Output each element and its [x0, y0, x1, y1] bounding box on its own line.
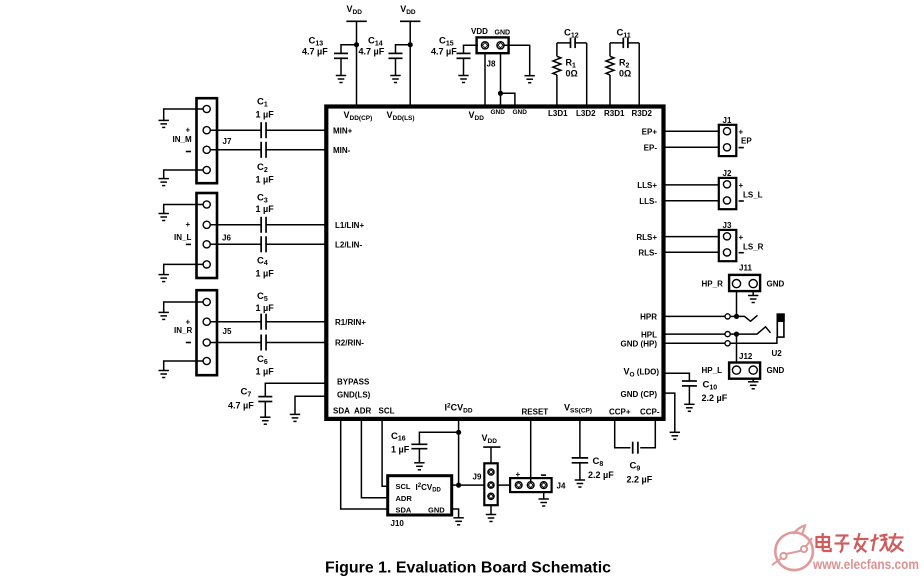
svg-text:4.7 µF: 4.7 µF — [228, 401, 254, 411]
contact GND(HP) — [725, 341, 730, 346]
svg-text:1 µF: 1 µF — [256, 303, 275, 313]
svg-text:CCP-: CCP- — [640, 408, 660, 417]
svg-text:4.7 µF: 4.7 µF — [431, 47, 457, 57]
svg-text:GND: GND — [428, 506, 445, 515]
junction GND branch — [498, 91, 503, 96]
wire J7 pin2 to C1 — [210, 129, 261, 131]
wire C1 to MIN+ — [266, 129, 326, 131]
wire HPL contact to junction — [730, 333, 734, 335]
wire C16 to ground — [418, 449, 420, 463]
svg-text:Figure 1. Evaluation Board Sch: Figure 1. Evaluation Board Schematic — [325, 560, 611, 577]
svg-text:J6: J6 — [222, 234, 231, 243]
svg-text:R3D1: R3D1 — [604, 109, 625, 118]
wire GND(HP) — [664, 342, 725, 344]
wire J9 to J4 — [498, 484, 510, 486]
power symbol VDD (left) — [346, 4, 366, 21]
svg-text:HPR: HPR — [640, 313, 657, 322]
wire to R2 — [609, 43, 611, 56]
svg-text:LLS+: LLS+ — [637, 181, 657, 190]
wire node to J9 — [459, 484, 485, 486]
svg-text:J12: J12 — [739, 352, 753, 361]
svg-text:GND: GND — [513, 109, 528, 116]
svg-text:1 µF: 1 µF — [391, 445, 410, 455]
svg-text:1 µF: 1 µF — [256, 367, 275, 377]
junction C14 tap — [408, 42, 413, 47]
svg-text:SCL: SCL — [396, 482, 411, 491]
junction C16 tap — [456, 430, 461, 435]
IC U-main body — [326, 107, 663, 419]
wire J8 pin2 to ground — [504, 45, 530, 75]
svg-text:1 µF: 1 µF — [256, 269, 275, 279]
wire GND(LS) to ground — [295, 396, 326, 414]
ground J10 — [453, 518, 463, 525]
wire HPR contact to junction — [730, 315, 734, 317]
switch contact HPR (jack normally-closed) — [739, 315, 758, 321]
wire to C14 — [396, 45, 411, 54]
svg-text:J9: J9 — [473, 473, 482, 482]
minus IN_M — [186, 151, 191, 153]
contact HPR — [725, 314, 730, 319]
wire to R1 — [556, 43, 558, 56]
svg-text:J5: J5 — [223, 327, 232, 336]
svg-text:+: + — [186, 126, 191, 135]
power symbol VDD (J9) — [482, 433, 501, 447]
svg-text:R3D2: R3D2 — [632, 109, 653, 118]
wire C8 to ground — [579, 463, 581, 480]
svg-text:2.2 µF: 2.2 µF — [588, 470, 614, 480]
minus IN_R — [186, 342, 191, 344]
svg-text:RESET: RESET — [522, 408, 549, 417]
wire ADR to J10 — [361, 419, 387, 498]
minus LS_L — [739, 200, 744, 202]
wire C11 left — [610, 42, 623, 44]
svg-text:GND (CP): GND (CP) — [621, 390, 658, 399]
svg-text:1 µF: 1 µF — [256, 204, 275, 214]
wire J12 pin2 to ground — [752, 379, 754, 382]
svg-text:GND: GND — [767, 280, 785, 289]
minus IN_L — [186, 244, 191, 246]
svg-text:L3D2: L3D2 — [576, 109, 596, 118]
wire EP- to J1 — [664, 146, 719, 148]
wire C13 to ground — [340, 58, 342, 75]
svg-text:J1: J1 — [723, 116, 732, 125]
wire VDD to J9 pin1 — [490, 447, 492, 463]
svg-text:+: + — [739, 127, 744, 136]
svg-text:1 µF: 1 µF — [256, 175, 275, 185]
svg-text:IN_M: IN_M — [173, 135, 192, 144]
svg-text:GND(LS): GND(LS) — [337, 391, 371, 400]
svg-text:RLS-: RLS- — [638, 249, 657, 258]
wire C12 left — [557, 42, 571, 44]
svg-text:SDA: SDA — [333, 407, 350, 416]
svg-text:+: + — [739, 233, 744, 242]
svg-text:+: + — [186, 318, 191, 327]
wire R2 to R3D1 pin — [609, 75, 611, 105]
wire RESET to J4 — [530, 419, 532, 482]
svg-text:SDA: SDA — [396, 506, 412, 515]
svg-text:LS_L: LS_L — [743, 191, 763, 200]
svg-text:ADR: ADR — [354, 407, 372, 416]
wire J4 pin3 to ground — [543, 492, 545, 499]
svg-text:EP: EP — [741, 137, 752, 146]
svg-text:+: + — [516, 470, 521, 479]
wire C14 to ground — [395, 58, 397, 75]
svg-text:HP_R: HP_R — [702, 280, 724, 289]
svg-text:J3: J3 — [723, 221, 732, 230]
headphone jack U2 — [772, 313, 785, 357]
svg-text:GND: GND — [767, 366, 785, 375]
connector J9 — [473, 463, 498, 505]
svg-text:BYPASS: BYPASS — [337, 378, 370, 387]
watermark text dianzifashaoyou — [817, 533, 904, 553]
wire C11 to R3D2 pin — [638, 43, 640, 105]
wire J5 pin1 to ground — [164, 302, 203, 312]
svg-text:2.2 µF: 2.2 µF — [702, 393, 728, 403]
capacitor C11 — [617, 28, 631, 49]
wire VO(LDO) to C10 — [664, 373, 690, 381]
connector J7 — [197, 98, 218, 183]
connector J1 — [719, 125, 737, 156]
ground C10 — [684, 404, 694, 411]
svg-text:VDD: VDD — [471, 27, 488, 36]
capacitor C8 — [572, 456, 615, 480]
ground C15 — [458, 76, 468, 83]
svg-text:IN_R: IN_R — [174, 326, 192, 335]
ground J6 top — [159, 214, 169, 221]
wire J6 pin3 to C4 — [210, 243, 261, 245]
ground GND(LS) — [290, 414, 300, 421]
ground J8 — [525, 76, 535, 83]
wire C7 to ground — [264, 402, 266, 418]
wire J9 pin3 to ground — [490, 505, 492, 514]
capacitor C16 — [391, 431, 427, 455]
ground GND(CP) — [670, 432, 680, 439]
ground C8 — [575, 480, 585, 487]
svg-text:LLS-: LLS- — [639, 197, 657, 206]
connector J8 — [471, 27, 510, 69]
wire VDD1 to VDD(CP) pin — [356, 21, 358, 104]
wire GND(HP) to jack sleeve — [730, 337, 777, 343]
capacitor C6 — [256, 335, 275, 377]
wire J7 pin3 to C2 — [210, 149, 261, 151]
junction C13 tap — [354, 42, 359, 47]
svg-text:+: + — [739, 181, 744, 190]
svg-text:IN_L: IN_L — [174, 233, 191, 242]
capacitor C10 — [682, 380, 728, 404]
wire J10 GND to ground — [452, 509, 459, 518]
wire C10 to ground — [688, 386, 690, 404]
connector J10 — [388, 476, 452, 528]
wire to C16 — [419, 432, 458, 444]
wire C15 to ground — [463, 58, 465, 75]
wire C12 right — [575, 42, 587, 44]
ground J5 top — [159, 312, 169, 319]
resistor R1 — [553, 56, 578, 78]
svg-text:SCL: SCL — [379, 407, 395, 416]
wire to C13 — [341, 45, 357, 54]
connector J3 — [719, 230, 737, 261]
svg-text:R1/RIN+: R1/RIN+ — [335, 318, 366, 327]
wire J12 pin1 to HPL node — [736, 334, 738, 362]
wire C15 to J8 pin VDD — [464, 45, 479, 53]
wire I2CVDD down — [458, 419, 460, 485]
svg-text:2.2 µF: 2.2 µF — [627, 475, 653, 485]
svg-text:4.7 µF: 4.7 µF — [302, 47, 328, 57]
svg-text:L3D1: L3D1 — [548, 109, 568, 118]
capacitor C5 — [256, 291, 275, 330]
switch contact HPL (jack tip spring) — [739, 327, 771, 334]
svg-text:1 µF: 1 µF — [256, 110, 275, 120]
svg-text:HP_L: HP_L — [702, 366, 723, 375]
wire HPL — [664, 333, 725, 335]
connector J12 — [702, 352, 785, 379]
wire J5 pin3 to C6 — [210, 342, 261, 344]
ground J7 top — [159, 120, 169, 127]
capacitor C1 — [256, 97, 275, 139]
wire C4 to L2/LIN- — [266, 243, 326, 245]
wire C5 to R1/RIN+ — [266, 321, 326, 323]
svg-text:J11: J11 — [739, 264, 752, 273]
wire C11 right — [628, 42, 639, 44]
wire C9 to CCP- — [640, 419, 655, 448]
svg-text:GND: GND — [491, 109, 506, 116]
wire HPR — [664, 315, 725, 317]
svg-text:4.7 µF: 4.7 µF — [359, 47, 385, 57]
wire to second GND pin — [501, 93, 515, 104]
capacitor C3 — [256, 193, 275, 233]
ground J12 — [748, 382, 758, 389]
wire C3 to L1/LIN+ — [266, 224, 326, 226]
wire SCL to J10 — [382, 419, 388, 487]
wire J11 pin1 to HPR node — [736, 291, 738, 316]
svg-text:LS_R: LS_R — [743, 243, 764, 252]
wire J5 pin4 to ground — [164, 361, 203, 371]
ground J6 bottom — [159, 275, 169, 282]
ground J4 — [539, 499, 549, 506]
wire SDA to J10 — [341, 419, 388, 509]
capacitor C13 — [302, 36, 348, 59]
wire LLS- to J2 — [664, 200, 719, 202]
connector J6 — [197, 193, 218, 278]
svg-text:ADR: ADR — [396, 494, 413, 503]
connector J5 — [197, 290, 218, 375]
watermark logo elecfans — [772, 526, 813, 571]
ground J7 bottom — [159, 179, 169, 186]
svg-text:J4: J4 — [557, 482, 566, 491]
wire EP+ to J1 — [664, 130, 719, 132]
wire VSS(CP) to C8 — [579, 419, 581, 458]
svg-text:MIN-: MIN- — [333, 146, 351, 155]
wire J8 pin1 to IC VDD pin — [484, 53, 486, 104]
capacitor C4 — [256, 236, 275, 278]
wire C12 to L3D2 pin — [586, 43, 588, 105]
power symbol VDD (second) — [400, 4, 420, 21]
capacitor C2 — [256, 142, 275, 185]
svg-text:R2/RIN-: R2/RIN- — [335, 339, 364, 348]
svg-text:L1/LIN+: L1/LIN+ — [335, 221, 364, 230]
svg-text:J8: J8 — [487, 60, 496, 69]
capacitor C7 — [228, 387, 272, 411]
svg-text:GND: GND — [495, 30, 511, 37]
wire node to J10 I2CVDD — [452, 484, 459, 486]
wire J7 pin4 to ground — [164, 170, 203, 179]
wire J6 pin2 to C3 — [210, 224, 261, 226]
ground C16 — [414, 463, 424, 470]
svg-text:MIN+: MIN+ — [333, 127, 353, 136]
resistor R2 — [606, 56, 631, 78]
wire J8 pin2 to IC GND pin — [500, 53, 502, 104]
wire C2 to MIN- — [266, 149, 326, 151]
svg-text:CCP+: CCP+ — [609, 408, 631, 417]
wire R1 to L3D1 pin — [556, 75, 558, 105]
svg-text:GND (HP): GND (HP) — [621, 340, 658, 349]
wire J6 pin1 to ground — [164, 205, 203, 214]
contact HPL — [725, 332, 730, 337]
wire J7 pin1 to ground — [164, 109, 203, 120]
wire BYPASS to C7 — [265, 383, 326, 396]
wire GND(CP) to ground — [664, 393, 675, 432]
capacitor C14 — [359, 36, 403, 59]
svg-text:J2: J2 — [723, 169, 732, 178]
wire RLS+ to J3 — [664, 236, 719, 238]
svg-text:www.elecfans.com: www.elecfans.com — [812, 557, 919, 572]
wire VDD2 to VDD(LS) pin — [409, 21, 411, 104]
svg-text:J7: J7 — [223, 137, 232, 146]
svg-text:+: + — [186, 220, 191, 229]
svg-text:0Ω: 0Ω — [619, 69, 631, 79]
ground C13 — [336, 76, 346, 83]
ground C14 — [390, 76, 400, 83]
svg-text:J10: J10 — [391, 519, 405, 528]
svg-text:U2: U2 — [772, 349, 783, 358]
wire J6 pin4 to ground — [164, 264, 203, 274]
ground J11 — [748, 296, 758, 303]
ground J5 bottom — [159, 371, 169, 378]
wire J5 pin2 to C5 — [210, 321, 261, 323]
svg-text:EP-: EP- — [644, 144, 658, 153]
capacitor C15 — [431, 36, 471, 59]
capacitor C12 — [564, 28, 579, 49]
svg-text:L2/LIN-: L2/LIN- — [335, 240, 362, 249]
capacitor C9 — [627, 442, 653, 485]
wire LLS+ to J2 — [664, 184, 719, 186]
wire J11 pin2 to ground — [752, 291, 754, 295]
connector J4 — [510, 470, 566, 492]
connector J2 — [719, 178, 737, 209]
wire C6 to R2/RIN- — [266, 342, 326, 344]
wire CCP+ to C9 — [615, 419, 631, 448]
minus EP — [739, 147, 744, 149]
svg-text:HPL: HPL — [641, 330, 657, 339]
ground J9 — [486, 515, 496, 522]
junction HPL — [734, 332, 739, 337]
junction HPR — [734, 314, 739, 319]
wire RLS- to J3 — [664, 251, 719, 253]
minus LS_R — [739, 252, 744, 254]
svg-text:0Ω: 0Ω — [566, 69, 578, 79]
connector J11 — [702, 264, 785, 292]
ground C7 — [260, 417, 270, 424]
svg-text:EP+: EP+ — [642, 128, 658, 137]
svg-text:RLS+: RLS+ — [636, 233, 657, 242]
junction I2CVDD node — [456, 483, 461, 488]
